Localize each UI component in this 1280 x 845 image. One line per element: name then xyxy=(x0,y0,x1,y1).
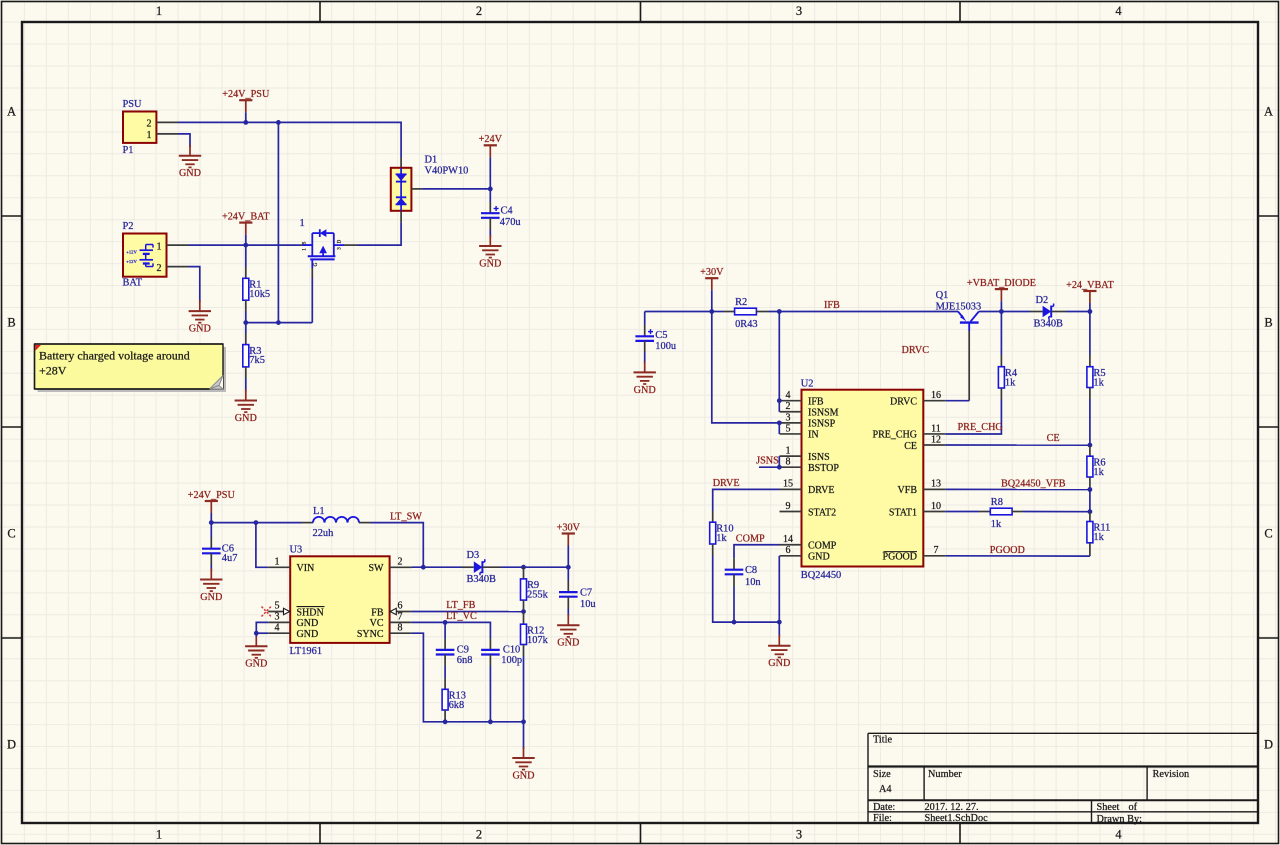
svg-text:7: 7 xyxy=(934,545,939,556)
svg-text:+30V: +30V xyxy=(557,522,581,533)
svg-text:Title: Title xyxy=(873,735,893,746)
svg-text:4: 4 xyxy=(786,390,791,401)
svg-text:MJE15033: MJE15033 xyxy=(936,301,982,312)
svg-text:Q1: Q1 xyxy=(936,290,949,301)
svg-text:2: 2 xyxy=(398,556,403,567)
svg-text:5: 5 xyxy=(786,423,791,434)
svg-text:C: C xyxy=(1264,527,1272,541)
svg-text:D: D xyxy=(7,738,16,752)
svg-text:CE: CE xyxy=(1047,433,1060,444)
svg-text:PRE_CHG: PRE_CHG xyxy=(958,422,1004,433)
svg-text:JSNS: JSNS xyxy=(756,456,779,467)
svg-text:C10: C10 xyxy=(503,644,520,655)
svg-text:15: 15 xyxy=(783,479,793,490)
svg-text:GND: GND xyxy=(634,385,656,396)
svg-text:DRVC: DRVC xyxy=(890,397,917,408)
svg-text:D1: D1 xyxy=(425,155,438,166)
svg-text:DRVE: DRVE xyxy=(713,478,740,489)
svg-text:CE: CE xyxy=(904,441,917,452)
svg-text:+24V_BAT: +24V_BAT xyxy=(222,211,270,222)
svg-text:1k: 1k xyxy=(1093,532,1104,543)
svg-text:+12V: +12V xyxy=(126,259,137,264)
svg-text:BSTOP: BSTOP xyxy=(808,463,839,474)
svg-text:2: 2 xyxy=(147,118,152,129)
svg-text:COMP: COMP xyxy=(808,541,837,552)
svg-text:ISNS: ISNS xyxy=(808,452,830,463)
svg-text:L1: L1 xyxy=(313,506,325,517)
svg-text:1: 1 xyxy=(156,828,162,842)
svg-text:GND: GND xyxy=(512,770,534,781)
svg-text:2017. 12. 27.: 2017. 12. 27. xyxy=(925,802,979,813)
svg-text:R2: R2 xyxy=(735,297,747,308)
svg-text:6: 6 xyxy=(786,545,791,556)
svg-text:VIN: VIN xyxy=(297,563,315,574)
svg-text:C: C xyxy=(7,527,15,541)
svg-text:GND: GND xyxy=(557,638,579,649)
svg-text:U3: U3 xyxy=(290,545,303,556)
svg-text:4: 4 xyxy=(1115,828,1122,842)
svg-text:C8: C8 xyxy=(745,565,757,576)
svg-text:Drawn By:: Drawn By: xyxy=(1097,814,1143,825)
svg-text:Battery charged voltage around: Battery charged voltage around xyxy=(39,348,190,362)
svg-text:6n8: 6n8 xyxy=(457,655,473,666)
svg-text:4u7: 4u7 xyxy=(222,553,238,564)
svg-text:9: 9 xyxy=(786,501,791,512)
svg-text:Number: Number xyxy=(928,769,962,780)
svg-text:16: 16 xyxy=(931,390,941,401)
svg-text:GND: GND xyxy=(189,324,211,335)
svg-text:13: 13 xyxy=(931,479,941,490)
svg-text:VFB: VFB xyxy=(898,485,918,496)
svg-text:File:: File: xyxy=(873,813,892,824)
svg-text:100p: 100p xyxy=(501,655,522,666)
svg-text:C9: C9 xyxy=(457,644,469,655)
svg-text:PGOOD: PGOOD xyxy=(883,552,917,563)
svg-text:GND: GND xyxy=(808,552,830,563)
svg-text:V40PW10: V40PW10 xyxy=(425,166,469,177)
svg-text:GND: GND xyxy=(179,168,201,179)
svg-text:+24V: +24V xyxy=(479,134,503,145)
svg-text:10: 10 xyxy=(931,501,941,512)
svg-text:470u: 470u xyxy=(500,217,522,228)
svg-text:PSU: PSU xyxy=(123,99,143,110)
svg-text:0R43: 0R43 xyxy=(735,319,758,330)
svg-text:1k: 1k xyxy=(991,519,1002,530)
svg-text:R8: R8 xyxy=(991,497,1003,508)
svg-text:7: 7 xyxy=(398,612,403,623)
svg-text:1k: 1k xyxy=(1093,467,1104,478)
svg-text:VC: VC xyxy=(370,618,384,629)
svg-text:10u: 10u xyxy=(580,599,596,610)
svg-text:1k: 1k xyxy=(1005,377,1016,388)
svg-text:U2: U2 xyxy=(801,379,814,390)
svg-text:Revision: Revision xyxy=(1153,769,1190,780)
svg-text:S: S xyxy=(303,241,308,244)
svg-text:of: of xyxy=(1129,802,1138,813)
svg-text:107k: 107k xyxy=(527,635,549,646)
svg-text:G: G xyxy=(314,262,319,266)
svg-text:LT_SW: LT_SW xyxy=(390,511,422,522)
svg-text:5: 5 xyxy=(275,601,280,612)
svg-text:8: 8 xyxy=(786,457,791,468)
svg-text:B340B: B340B xyxy=(467,574,497,585)
svg-text:Size: Size xyxy=(873,769,891,780)
svg-text:GND: GND xyxy=(479,258,501,269)
svg-text:C5: C5 xyxy=(655,330,667,341)
svg-text:LT_VC: LT_VC xyxy=(446,611,477,622)
svg-text:1: 1 xyxy=(300,218,305,229)
svg-text:A: A xyxy=(7,105,16,119)
svg-text:D2: D2 xyxy=(1036,295,1049,306)
svg-text:P2: P2 xyxy=(123,221,134,232)
svg-text:+24V_PSU: +24V_PSU xyxy=(188,490,236,501)
svg-text:12: 12 xyxy=(931,434,941,445)
svg-text:DRVC: DRVC xyxy=(902,345,930,356)
svg-text:DRVE: DRVE xyxy=(808,485,834,496)
svg-text:IFB: IFB xyxy=(808,397,824,408)
svg-text:GND: GND xyxy=(297,629,319,640)
svg-text:ISNSP: ISNSP xyxy=(808,419,836,430)
svg-text:LT_FB: LT_FB xyxy=(446,600,475,611)
svg-text:1: 1 xyxy=(156,4,162,18)
svg-text:ISNSM: ISNSM xyxy=(808,408,839,419)
svg-text:C4: C4 xyxy=(501,206,514,217)
svg-text:BQ24450: BQ24450 xyxy=(801,570,841,581)
svg-text:A: A xyxy=(1264,105,1273,119)
svg-text:IN: IN xyxy=(808,430,819,441)
svg-text:Date:: Date: xyxy=(873,802,895,813)
svg-text:D: D xyxy=(1264,738,1273,752)
svg-text:BAT: BAT xyxy=(123,278,143,289)
svg-text:7k5: 7k5 xyxy=(249,355,265,366)
svg-text:3: 3 xyxy=(786,412,791,423)
svg-text:B: B xyxy=(1264,316,1272,330)
svg-text:8: 8 xyxy=(398,622,403,633)
svg-text:Sheet: Sheet xyxy=(1097,802,1120,813)
svg-text:+30V: +30V xyxy=(700,267,724,278)
svg-text:1: 1 xyxy=(786,446,791,457)
svg-text:GND: GND xyxy=(297,618,319,629)
svg-text:1: 1 xyxy=(157,242,162,253)
svg-text:GND: GND xyxy=(245,659,267,670)
svg-text:D: D xyxy=(338,239,343,243)
svg-text:COMP: COMP xyxy=(736,533,765,544)
svg-text:4: 4 xyxy=(1115,4,1122,18)
svg-text:1k: 1k xyxy=(716,533,727,544)
svg-text:BQ24450_VFB: BQ24450_VFB xyxy=(1001,478,1066,489)
svg-text:SW: SW xyxy=(369,563,385,574)
svg-text:+VBAT_DIODE: +VBAT_DIODE xyxy=(967,278,1036,289)
svg-text:A4: A4 xyxy=(879,784,892,795)
svg-text:14: 14 xyxy=(783,534,793,545)
svg-text:Sheet1.SchDoc: Sheet1.SchDoc xyxy=(925,813,989,824)
svg-text:+24_VBAT: +24_VBAT xyxy=(1066,280,1114,291)
svg-text:LT1961: LT1961 xyxy=(290,646,323,657)
svg-text:+12V: +12V xyxy=(126,250,137,255)
svg-text:FB: FB xyxy=(371,607,384,618)
svg-text:3: 3 xyxy=(275,612,280,623)
svg-text:SYNC: SYNC xyxy=(357,629,384,640)
svg-text:C7: C7 xyxy=(580,587,592,598)
svg-text:10k5: 10k5 xyxy=(249,289,270,300)
svg-text:PRE_CHG: PRE_CHG xyxy=(873,430,917,441)
svg-text:2: 2 xyxy=(476,828,482,842)
svg-text:2: 2 xyxy=(157,263,162,274)
svg-text:100u: 100u xyxy=(655,341,677,352)
svg-text:2: 2 xyxy=(786,401,791,412)
svg-text:10n: 10n xyxy=(745,577,761,588)
svg-text:6: 6 xyxy=(398,601,403,612)
svg-text:+28V: +28V xyxy=(39,363,67,377)
svg-text:6k8: 6k8 xyxy=(449,700,465,711)
svg-text:11: 11 xyxy=(931,423,941,434)
svg-text:STAT2: STAT2 xyxy=(808,507,836,518)
svg-text:SHDN: SHDN xyxy=(297,607,324,618)
svg-text:D3: D3 xyxy=(467,550,480,561)
svg-text:GND: GND xyxy=(235,413,257,424)
svg-text:1k: 1k xyxy=(1093,377,1104,388)
svg-text:1: 1 xyxy=(275,556,280,567)
svg-text:3: 3 xyxy=(796,828,802,842)
svg-text:+24V_PSU: +24V_PSU xyxy=(222,89,270,100)
svg-text:B: B xyxy=(7,316,15,330)
svg-text:255k: 255k xyxy=(527,590,549,601)
svg-text:GND: GND xyxy=(200,592,222,603)
svg-text:B340B: B340B xyxy=(1034,319,1064,330)
svg-text:22uh: 22uh xyxy=(313,528,335,539)
svg-text:P1: P1 xyxy=(123,145,134,156)
svg-text:2: 2 xyxy=(476,4,482,18)
svg-text:IFB: IFB xyxy=(824,300,840,311)
svg-text:4: 4 xyxy=(275,622,280,633)
svg-text:1: 1 xyxy=(147,130,152,141)
svg-text:STAT1: STAT1 xyxy=(889,507,917,518)
svg-text:GND: GND xyxy=(768,658,790,669)
svg-text:3: 3 xyxy=(796,4,802,18)
svg-text:PGOOD: PGOOD xyxy=(990,545,1025,556)
